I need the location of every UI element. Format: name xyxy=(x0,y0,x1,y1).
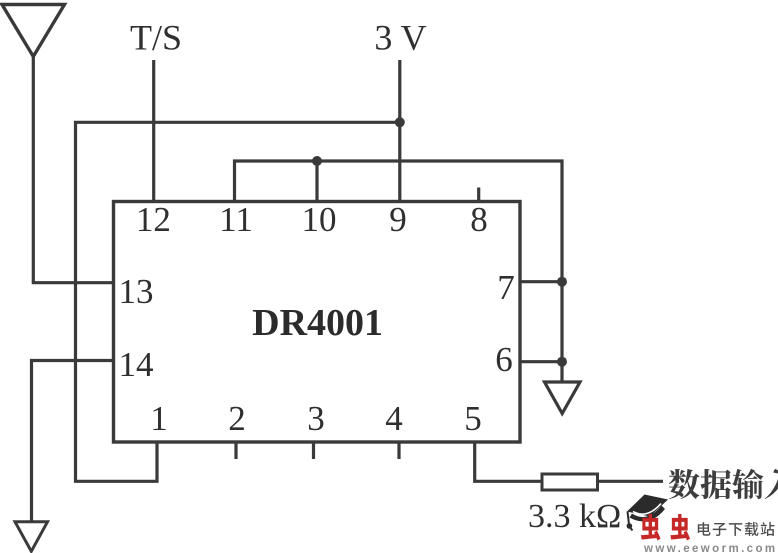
wire pin 7 xyxy=(520,280,562,283)
svg-text:12: 12 xyxy=(136,200,171,239)
wire pin 11 / pin 10 bus to pin 7-6 net xyxy=(235,161,563,382)
antenna ANT2 xyxy=(15,522,48,552)
wire pin 3 stub xyxy=(312,442,315,460)
svg-text:10: 10 xyxy=(302,200,337,239)
resistor R1 xyxy=(542,474,598,490)
logo chongchong (red worm chars) xyxy=(641,514,690,541)
svg-text:www.eeworm.com: www.eeworm.com xyxy=(643,543,778,553)
svg-text:4: 4 xyxy=(385,399,403,438)
junction dot pin 10 bus xyxy=(312,156,322,166)
junction dot 3 V bus xyxy=(395,117,405,127)
wire pin 14 to ANT2 xyxy=(32,361,114,522)
logo graduation cap xyxy=(627,495,668,531)
IC U1 DR4001 xyxy=(114,202,521,443)
svg-text:5: 5 xyxy=(464,399,482,438)
wire R1 to data input xyxy=(598,480,664,483)
svg-text:3.3 kΩ: 3.3 kΩ xyxy=(528,498,621,535)
wire pin 6 xyxy=(520,360,562,363)
label data-input (Chinese: shu ju shu ru) xyxy=(669,469,778,499)
svg-text:3 V: 3 V xyxy=(374,18,426,58)
junction dot pin 6 xyxy=(557,357,567,367)
svg-text:14: 14 xyxy=(119,345,154,384)
svg-text:2: 2 xyxy=(228,399,246,438)
junction dot pin 7 xyxy=(557,277,567,287)
wire T/S to pin 12 xyxy=(152,60,155,202)
wire pin 10 riser xyxy=(315,161,318,202)
wire 3 V bus to pin 1 xyxy=(76,122,400,481)
svg-text:9: 9 xyxy=(389,200,407,239)
svg-text:6: 6 xyxy=(495,340,513,379)
wire pin 4 stub xyxy=(397,442,400,460)
wire 3 V to pin 9 xyxy=(398,60,401,202)
wire pin 5 to resistor R1 xyxy=(475,442,542,482)
svg-text:1: 1 xyxy=(150,399,168,438)
svg-text:8: 8 xyxy=(470,200,488,239)
logo site name (Chinese: electronics download site) xyxy=(698,522,775,536)
svg-text:T/S: T/S xyxy=(130,18,182,58)
svg-text:11: 11 xyxy=(219,200,253,239)
svg-text:13: 13 xyxy=(119,272,154,311)
wire pin 2 stub xyxy=(234,442,237,460)
wire pin 8 stub xyxy=(477,188,480,202)
wire pin 13 xyxy=(32,281,114,284)
ground GND1 xyxy=(545,382,581,414)
svg-text:7: 7 xyxy=(497,268,515,307)
antenna ANT1 xyxy=(2,5,65,57)
svg-text:3: 3 xyxy=(307,399,325,438)
wire ANT1 lead xyxy=(32,57,35,283)
svg-text:DR4001: DR4001 xyxy=(252,302,383,344)
